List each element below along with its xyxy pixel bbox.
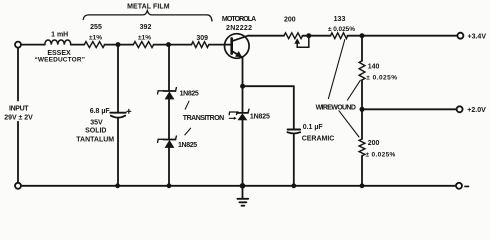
svg-text:± 0.025%: ± 0.025% [366,152,396,159]
svg-text:309: 309 [196,35,208,42]
wire R309 to transistor base [209,44,232,46]
wire 0.1uF vertical top [293,86,295,129]
terminal minus [456,183,462,189]
svg-text:+2.0V: +2.0V [467,107,486,114]
zener D3 1N825 [237,112,248,114]
plus sign C1 [127,109,131,113]
wire 0.1uF to bus [293,134,295,186]
node divider top [360,33,365,38]
svg-text:2N2222: 2N2222 [226,25,252,32]
wire zener D2 to bus [168,148,170,186]
wire pot to R133 [303,35,331,37]
wire 6.8uF vertical top [117,45,119,113]
svg-text:METAL FILM: METAL FILM [127,3,170,10]
svg-text:1N825: 1N825 [250,113,270,120]
inductor L1 1mH [45,40,71,45]
node junction B [166,42,171,47]
svg-text:133: 133 [334,16,346,23]
pointer wirewound to R140 [348,80,361,100]
node emitter branch [240,84,245,89]
wire emitter branch horizontal [243,85,294,87]
svg-text:TRANSITRON: TRANSITRON [183,115,224,122]
potentiometer 200 [284,33,303,39]
wire bottom bus [21,185,456,187]
minus label dash [465,185,469,187]
brace METAL FILM [83,11,212,21]
svg-text:±1%: ±1% [89,34,102,41]
svg-text:MOTOROLA: MOTOROLA [222,16,256,23]
node junction A [116,42,121,47]
pointer wirewound to R200 [339,111,359,137]
svg-text:“WEEDUCTOR”: “WEEDUCTOR” [34,57,84,64]
svg-text:CERAMIC: CERAMIC [302,136,335,143]
wire R133 to +3.4V terminal [348,35,458,37]
wire collector rail [248,35,284,37]
svg-text:WIREWOUND: WIREWOUND [316,105,356,112]
svg-text:+3.4V: +3.4V [468,33,487,40]
svg-text:± 0.025%: ± 0.025% [366,75,397,82]
wire R200 to bus [361,156,363,186]
resistor 140 [359,61,365,80]
node bus divider [360,183,365,188]
node bus C1 [115,183,120,188]
svg-text:140: 140 [368,64,380,71]
wire inductor to R255 [71,44,85,46]
resistor 255 [84,42,104,48]
svg-text:±1%: ±1% [138,34,151,41]
wire +2.0V rail [362,108,456,110]
svg-text:0.1 µF: 0.1 µF [303,124,324,131]
node bus 0.1uF [291,183,296,188]
wire top rail to inductor [21,44,45,46]
wire divider vertical top [361,36,363,61]
svg-text:INPUT: INPUT [9,105,29,112]
terminal +3.4V [457,33,463,39]
zener D1 1N825 [164,90,176,92]
wire zener chain vertical top [168,45,170,91]
svg-text:1 mH: 1 mH [51,32,68,39]
ground [242,186,244,199]
wire input left vertical [17,48,19,101]
svg-text:29V ± 2V: 29V ± 2V [4,115,33,122]
transistor Q1 2N2222 [225,34,250,59]
resistor 133 [331,33,348,39]
resistor 200 lower [359,139,365,156]
wire zener D3 to bus [242,120,244,186]
svg-text:SOLID: SOLID [85,128,106,135]
wire R255 to R392 [105,44,134,46]
pointer transitron to D1 [185,101,189,109]
terminal input - [15,183,21,189]
wire R392 to R309 [154,44,192,46]
node pot junction [306,33,311,38]
svg-text:6.8 µF: 6.8 µF [90,108,111,115]
terminal +2.0V [457,106,463,112]
capacitor 0.1uF ceramic [288,129,301,131]
svg-text:35V: 35V [90,120,103,127]
node bus zeners [167,183,172,188]
node bus ground [240,183,246,189]
svg-text:1N825: 1N825 [180,91,199,98]
svg-text:± 0.025%: ± 0.025% [328,26,355,33]
svg-text:255: 255 [90,24,102,31]
wire emitter vertical [242,58,244,113]
wire R140 to node +2.0 [361,80,363,139]
resistor 392 [133,42,153,48]
wire between zeners [168,99,170,139]
pointer transitron to D2 [185,128,191,135]
svg-text:TANTALUM: TANTALUM [76,137,114,144]
pot wiper arrow [294,38,300,43]
capacitor C1 6.8uF [110,112,126,114]
resistor 309 [192,42,209,48]
svg-text:200: 200 [284,17,296,24]
pointer wirewound to R133 [328,40,344,99]
svg-text:1N825: 1N825 [178,142,197,149]
terminal input + [15,42,21,48]
svg-text:392: 392 [140,24,152,31]
zener D2 1N825 [164,139,176,141]
svg-text:200: 200 [368,140,380,147]
node +2.0 junction [360,107,365,112]
wire 6.8uF to bus [117,118,119,186]
